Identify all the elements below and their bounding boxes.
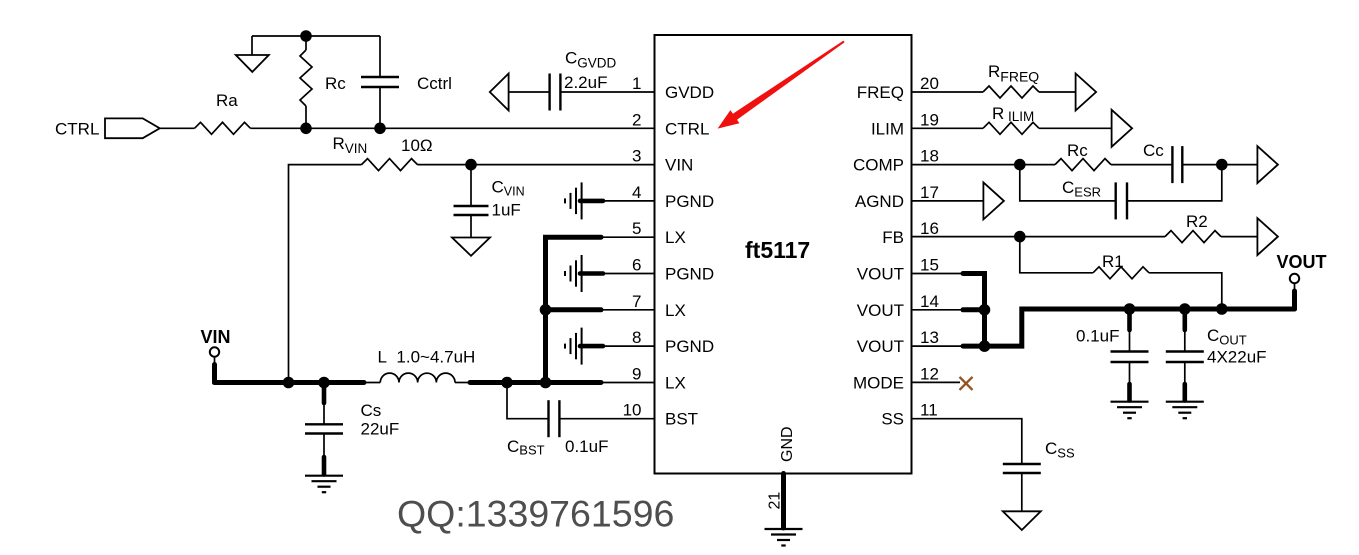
svg-text:0.1uF: 0.1uF bbox=[565, 437, 608, 456]
node LX bus pin 7 junction bbox=[540, 304, 552, 316]
node Cctrl/CTRL junction bbox=[374, 123, 386, 135]
svg-text:Rc: Rc bbox=[1067, 141, 1088, 160]
wire thick inductor to LX bus bbox=[470, 380, 601, 385]
wire thick VIN rail bbox=[215, 380, 365, 385]
ground (signal) below C_VIN bbox=[452, 238, 490, 256]
power ground symbol pin 6 PGND bbox=[565, 255, 655, 292]
ground (earth) below 0.1uF bbox=[1111, 402, 1149, 419]
resistor R2 bbox=[1165, 212, 1221, 243]
pin 17 AGND name+number bbox=[855, 183, 939, 211]
svg-text:COMP: COMP bbox=[853, 156, 904, 175]
IC U1 ft5117 body bbox=[655, 35, 912, 474]
svg-text:4: 4 bbox=[632, 183, 641, 202]
svg-text:PGND: PGND bbox=[665, 192, 714, 211]
svg-text:12: 12 bbox=[920, 364, 939, 383]
port triangle FB bbox=[1257, 218, 1278, 255]
svg-text:R1: R1 bbox=[1102, 252, 1124, 271]
svg-text:GND: GND bbox=[779, 426, 796, 462]
svg-text:CTRL: CTRL bbox=[55, 120, 99, 139]
svg-text:7: 7 bbox=[632, 292, 641, 311]
svg-text:ILIM: ILIM bbox=[871, 119, 904, 138]
svg-text:19: 19 bbox=[920, 110, 939, 129]
capacitor Cs 22uF bbox=[305, 383, 399, 475]
svg-text:Cc: Cc bbox=[1143, 141, 1164, 160]
resistor Ra bbox=[195, 91, 251, 134]
pin 18 COMP name+number bbox=[853, 147, 939, 175]
wire R2 to FB triangle bbox=[1221, 236, 1257, 238]
svg-text:VOUT: VOUT bbox=[857, 265, 904, 284]
node VIN rail / Cs branch bbox=[318, 377, 330, 389]
wire thick pin 14 VOUT bbox=[912, 309, 985, 311]
wire thick pin 15 VOUT bbox=[912, 274, 985, 347]
wire pin 20 FREQ bbox=[912, 91, 984, 93]
wire thick VOUT bus step to rail bbox=[985, 309, 1295, 346]
node VOUT rail / R1 branch bbox=[1216, 303, 1228, 315]
no-connect X on MODE bbox=[960, 377, 973, 390]
pin 2 CTRL name+number bbox=[632, 110, 709, 138]
wire Ra to pin 2 CTRL bbox=[251, 127, 655, 129]
wire thick pin 13 VOUT bbox=[912, 345, 985, 347]
svg-text:CVIN: CVIN bbox=[492, 177, 525, 198]
svg-text:R ILIM: R ILIM bbox=[992, 104, 1034, 124]
pin 7 LX name+number bbox=[632, 292, 686, 320]
svg-text:L 1.0~4.7uH: L 1.0~4.7uH bbox=[378, 348, 476, 367]
resistor R_FREQ bbox=[983, 62, 1039, 98]
node VIN rail / R_VIN branch bbox=[283, 377, 295, 389]
pin 1 GVDD name+number bbox=[632, 74, 714, 102]
wire GVDD arrow to C_GVDD bbox=[509, 91, 550, 93]
node C_VIN junction on pin3 wire bbox=[465, 159, 477, 171]
node VOUT rail / 0.1uF branch bbox=[1124, 303, 1136, 315]
ground (signal) top-left bbox=[236, 36, 269, 72]
svg-text:4X22uF: 4X22uF bbox=[1207, 348, 1267, 367]
svg-text:3: 3 bbox=[632, 147, 641, 166]
wire C_BST to pin 10 BST bbox=[559, 418, 654, 420]
ground (earth) below C_OUT bbox=[1166, 402, 1204, 419]
svg-text:0.1uF: 0.1uF bbox=[1076, 327, 1119, 346]
terminal VIN bbox=[201, 327, 231, 383]
svg-text:10Ω: 10Ω bbox=[401, 136, 433, 155]
wire thick pin 21 GND bbox=[781, 474, 786, 529]
wire pin 16 FB bbox=[912, 236, 1166, 238]
node VOUT bus pin 13 bbox=[979, 340, 991, 352]
pin 8 PGND name+number bbox=[632, 328, 714, 356]
pin 11 SS name+number bbox=[881, 401, 937, 429]
svg-text:17: 17 bbox=[920, 183, 939, 202]
node COMP output / C_ESR junction bbox=[1216, 159, 1228, 171]
svg-text:VIN: VIN bbox=[201, 327, 231, 347]
capacitor C_ESR branch bbox=[1020, 165, 1222, 220]
wire R_VIN left corner down to VIN rail bbox=[289, 165, 362, 383]
svg-text:CGVDD: CGVDD bbox=[565, 49, 617, 71]
svg-text:FREQ: FREQ bbox=[857, 83, 904, 102]
svg-text:16: 16 bbox=[920, 219, 939, 238]
pin 10 BST name+number bbox=[623, 401, 698, 429]
svg-text:Ra: Ra bbox=[216, 91, 238, 110]
svg-text:LX: LX bbox=[665, 301, 686, 320]
pin 16 FB name+number bbox=[882, 219, 939, 247]
pin 14 VOUT name+number bbox=[857, 292, 939, 320]
resistor R1 branch from FB node to VOUT rail bbox=[1020, 237, 1222, 309]
svg-text:MODE: MODE bbox=[853, 373, 904, 392]
svg-text:VIN: VIN bbox=[665, 156, 693, 175]
svg-text:2.2uF: 2.2uF bbox=[564, 73, 607, 92]
wire R_FREQ to output triangle bbox=[1039, 91, 1076, 93]
pin 21 GND name+number (rotated) bbox=[767, 426, 797, 509]
node VOUT rail / C_OUT branch bbox=[1179, 303, 1191, 315]
svg-text:COUT: COUT bbox=[1207, 326, 1247, 348]
resistor R_ILIM bbox=[983, 104, 1039, 134]
svg-text:Cctrl: Cctrl bbox=[417, 74, 452, 93]
svg-text:21: 21 bbox=[767, 492, 784, 510]
svg-text:CESR: CESR bbox=[1062, 178, 1101, 200]
pin 6 PGND name+number bbox=[632, 256, 714, 284]
svg-text:PGND: PGND bbox=[665, 265, 714, 284]
svg-text:PGND: PGND bbox=[665, 337, 714, 356]
ground (signal) below C_SS bbox=[1003, 511, 1041, 530]
port triangle COMP bbox=[1257, 146, 1278, 183]
svg-text:LX: LX bbox=[665, 373, 686, 392]
svg-text:VOUT: VOUT bbox=[1277, 252, 1327, 272]
port triangle AGND bbox=[983, 182, 1004, 219]
svg-text:ft5117: ft5117 bbox=[745, 237, 810, 263]
capacitor Cctrl bbox=[361, 36, 452, 128]
pin 20 FREQ name+number bbox=[857, 74, 939, 102]
capacitor C_BST 0.1uF bbox=[507, 383, 608, 458]
power ground symbol pin 8 PGND bbox=[565, 328, 655, 365]
ground (earth) below Cs bbox=[305, 476, 343, 493]
svg-text:20: 20 bbox=[920, 74, 939, 93]
wire C_GVDD to pin 1 bbox=[560, 91, 654, 93]
pin 12 MODE name+number bbox=[853, 364, 939, 392]
wire R_VIN to pin 3 VIN bbox=[418, 164, 655, 166]
wire R_ILIM to output triangle bbox=[1039, 127, 1112, 129]
pin 19 ILIM name+number bbox=[871, 110, 939, 138]
node C_BST branch on LX rail bbox=[501, 377, 513, 389]
wire pin 18 COMP bbox=[912, 164, 1056, 166]
svg-text:AGND: AGND bbox=[855, 192, 904, 211]
node Rc/CTRL junction bbox=[300, 123, 312, 135]
wire pin 12 MODE bbox=[912, 381, 961, 383]
svg-text:9: 9 bbox=[632, 364, 641, 383]
svg-text:15: 15 bbox=[920, 256, 939, 275]
wire pin 17 AGND bbox=[912, 200, 984, 202]
wire Cc to COMP triangle bbox=[1182, 164, 1257, 166]
svg-text:22uF: 22uF bbox=[361, 420, 400, 439]
resistor Rc (vertical, top-left) bbox=[300, 36, 346, 128]
pin 9 LX name+number bbox=[632, 364, 686, 392]
wire pin 11 SS bbox=[912, 419, 1022, 464]
wire thin pin 9 LX stub bbox=[601, 382, 655, 384]
pin 3 VIN name+number bbox=[632, 147, 693, 175]
wire CTRL to Ra bbox=[160, 127, 195, 129]
resistor R_VIN 10ohm bbox=[333, 134, 433, 171]
svg-text:14: 14 bbox=[920, 292, 939, 311]
wire thin pin 5 LX stub bbox=[601, 236, 655, 238]
port triangle ILIM bbox=[1112, 110, 1133, 147]
wire top rail to Rc and Cctrl bbox=[252, 35, 380, 37]
svg-text:VOUT: VOUT bbox=[857, 337, 904, 356]
svg-text:BST: BST bbox=[665, 410, 698, 429]
svg-text:R2: R2 bbox=[1186, 212, 1208, 231]
node FB / R1 junction bbox=[1014, 231, 1026, 243]
node COMP / C_ESR junction bbox=[1014, 159, 1026, 171]
svg-text:FB: FB bbox=[882, 228, 904, 247]
ground (earth) pin 21 bbox=[765, 529, 803, 546]
node LX bus rail junction bbox=[540, 377, 552, 389]
svg-text:RFREQ: RFREQ bbox=[988, 62, 1039, 85]
wire Rc to Cc bbox=[1111, 164, 1172, 166]
svg-text:Cs: Cs bbox=[361, 401, 382, 420]
svg-text:2: 2 bbox=[632, 110, 641, 129]
svg-text:18: 18 bbox=[920, 147, 939, 166]
svg-text:6: 6 bbox=[632, 256, 641, 275]
svg-text:8: 8 bbox=[632, 328, 641, 347]
power ground symbol pin 4 PGND bbox=[565, 182, 655, 219]
capacitor C_GVDD 2.2uF bbox=[550, 49, 617, 111]
svg-text:10: 10 bbox=[623, 401, 642, 420]
capacitor C_VIN 1uF bbox=[454, 165, 525, 238]
svg-text:1: 1 bbox=[632, 74, 641, 93]
svg-text:11: 11 bbox=[920, 401, 938, 420]
capacitor C_OUT 4X22uF bbox=[1166, 309, 1267, 401]
wire pin 19 ILIM bbox=[912, 127, 984, 129]
svg-text:1uF: 1uF bbox=[492, 201, 521, 220]
pin 13 VOUT name+number bbox=[857, 328, 939, 356]
wire thick LX bus vertical with pin5/pin7 arms bbox=[546, 237, 602, 382]
capacitor 0.1uF (output) bbox=[1076, 309, 1149, 401]
pin 5 LX name+number bbox=[632, 219, 686, 247]
svg-text:QQ:1339761596: QQ:1339761596 bbox=[397, 493, 674, 535]
inductor L 1.0~4.7uH bbox=[364, 348, 475, 383]
node VOUT bus pin 14 bbox=[979, 304, 991, 316]
pin 15 VOUT name+number bbox=[857, 256, 939, 284]
resistor Rc (compensation) bbox=[1055, 141, 1111, 171]
capacitor C_SS bbox=[1003, 439, 1075, 511]
svg-text:CSS: CSS bbox=[1045, 439, 1075, 461]
port CTRL (off-page connector) bbox=[55, 118, 160, 138]
terminal VOUT bbox=[1277, 252, 1327, 309]
port GVDD left arrow connector bbox=[490, 74, 509, 111]
capacitor Cc bbox=[1143, 141, 1182, 183]
wire thin pin 7 LX stub bbox=[601, 309, 655, 311]
svg-text:GVDD: GVDD bbox=[665, 83, 714, 102]
pin 4 PGND name+number bbox=[632, 183, 714, 211]
watermark QQ:1339761596 bbox=[397, 493, 674, 535]
svg-text:SS: SS bbox=[881, 410, 904, 429]
node on top rail at Rc bbox=[300, 30, 312, 42]
svg-text:RVIN: RVIN bbox=[333, 134, 368, 156]
svg-text:5: 5 bbox=[632, 219, 641, 238]
svg-text:Rc: Rc bbox=[325, 74, 346, 93]
svg-text:CBST: CBST bbox=[507, 437, 545, 458]
svg-text:CTRL: CTRL bbox=[665, 119, 709, 138]
svg-text:VOUT: VOUT bbox=[857, 301, 904, 320]
svg-text:LX: LX bbox=[665, 228, 686, 247]
annotation red arrow pointing at CTRL pin bbox=[718, 41, 845, 129]
svg-text:13: 13 bbox=[920, 328, 939, 347]
port triangle FREQ bbox=[1076, 74, 1097, 111]
